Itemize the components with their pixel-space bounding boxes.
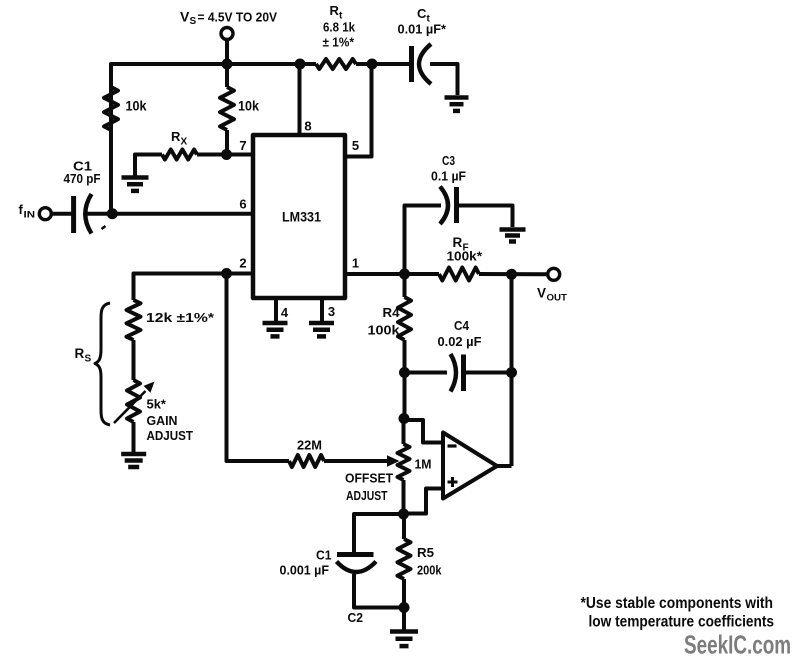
svg-text:R5: R5 [417, 545, 434, 560]
brace Rs [95, 303, 110, 425]
node junction pin2 [221, 268, 232, 279]
terminal VOUT [548, 268, 560, 280]
svg-text:22M: 22M [297, 438, 322, 453]
wire VS stub [225, 39, 229, 64]
resistor 12k body [127, 300, 141, 340]
potentiometer 5k body [127, 380, 140, 422]
svg-text:C4: C4 [454, 318, 470, 333]
potentiometer 1M body [398, 419, 410, 515]
label C4 [438, 318, 482, 349]
wire pot to ground [132, 422, 136, 452]
svg-text:7: 7 [239, 138, 246, 153]
svg-text:C1: C1 [316, 548, 332, 563]
capacitor C4 plate [461, 355, 466, 392]
svg-text:100k*: 100k* [447, 249, 483, 264]
svg-text:R4: R4 [383, 305, 401, 320]
svg-text:0.001 µF: 0.001 µF [280, 563, 330, 578]
wire top supply rail [111, 64, 316, 215]
capacitor C3 plate [454, 187, 459, 223]
svg-text:1: 1 [352, 256, 359, 271]
svg-text:0.02 µF: 0.02 µF [438, 334, 482, 349]
svg-text:1M: 1M [415, 457, 432, 472]
node junction fIN [107, 208, 118, 219]
label R5 [417, 545, 442, 578]
op-amp A1 triangle [443, 433, 497, 499]
capacitor C1 bottom plate [337, 552, 374, 557]
wire pin 1 [345, 272, 439, 276]
svg-text:6.8 1k: 6.8 1k [323, 20, 356, 35]
wire pin7 from RX [197, 153, 253, 157]
svg-text:12k ±1%*: 12k ±1%* [146, 310, 215, 325]
capacitor C1 curved plate [85, 194, 91, 234]
ground C3 [500, 230, 526, 242]
terminal VS [221, 28, 233, 40]
svg-text:ADJUST: ADJUST [346, 488, 388, 503]
svg-text:S: S [85, 354, 92, 365]
node junction C4 right [506, 367, 517, 378]
svg-text:C2: C2 [348, 610, 364, 625]
capacitor Ct curved plate [419, 44, 431, 84]
node junction R4 bottom [399, 367, 410, 378]
wire Rt to Ct [356, 62, 410, 66]
capacitor C1 bottom curved plate [337, 562, 377, 573]
wire R4 node to 1M [403, 373, 407, 420]
wire C1 bottom to node [354, 574, 404, 608]
wire pin 5 [345, 64, 372, 157]
svg-text:3: 3 [328, 304, 335, 319]
svg-text:*Use stable components with: *Use stable components with [581, 595, 774, 612]
svg-text:S: S [190, 16, 197, 27]
note stable components [581, 595, 775, 631]
svg-text:V: V [537, 286, 546, 301]
node junction VOUT [506, 269, 517, 280]
svg-text:C: C [417, 6, 427, 21]
op-amp minus sign [448, 444, 457, 447]
svg-text:C3: C3 [442, 153, 455, 168]
resistor 10k left body [104, 87, 118, 130]
wire to bottom ground [402, 608, 406, 630]
resistor R4 body + leads [398, 274, 411, 373]
svg-text:4: 4 [281, 305, 289, 320]
node junction VS rail [222, 59, 233, 70]
label RS [75, 346, 92, 365]
terminal fIN [39, 208, 51, 220]
label VOUT [537, 286, 567, 304]
svg-text:ADJUST: ADJUST [147, 428, 194, 443]
svg-text:0.01 µF*: 0.01 µF* [398, 22, 447, 37]
resistor 22M body [289, 455, 324, 467]
op-amp plus sign [448, 477, 458, 487]
svg-text:SeekIC.com: SeekIC.com [684, 630, 791, 660]
wire pin 4 + ground [263, 298, 288, 336]
svg-text:8: 8 [304, 119, 311, 134]
svg-text:200k: 200k [417, 563, 442, 578]
node junction pin8 branch [295, 59, 306, 70]
wire op-amp output [496, 464, 512, 468]
label Rt [330, 3, 344, 22]
svg-text:100k: 100k [368, 323, 401, 338]
svg-text:0.1 µF: 0.1 µF [431, 169, 466, 184]
svg-text:OFFSET: OFFSET [345, 471, 393, 486]
wire RX left + ground stub [135, 155, 162, 177]
wire C3 left branch [405, 206, 442, 275]
resistor 10k right body + lead [220, 64, 234, 155]
label Ct [417, 6, 431, 25]
label fIN [19, 202, 36, 221]
svg-text:low temperature coefficients: low temperature coefficients [589, 614, 775, 631]
label offset adjust [345, 471, 393, 504]
wire Ct to ground [430, 64, 458, 95]
svg-text:10k: 10k [126, 99, 147, 114]
wire fIN to C1 [51, 212, 72, 216]
node junction pin5 branch [367, 59, 378, 70]
wire output rail vertical [510, 274, 514, 466]
label C1 input [64, 159, 101, 187]
svg-text:IN: IN [24, 210, 36, 221]
label RF [447, 235, 483, 264]
label 5k gain adjust [147, 397, 194, 444]
capacitor C1 plate [71, 196, 76, 233]
node junction R5 bottom [399, 602, 410, 613]
svg-text:= 4.5V TO 20V: = 4.5V TO 20V [198, 10, 278, 25]
arrow into 1M [387, 455, 400, 466]
label R4 [368, 305, 401, 338]
node junction pin1 [399, 269, 410, 280]
op-amp U1 LM331 box [253, 135, 345, 298]
node junction 1M top [399, 413, 410, 424]
resistor RX body [162, 150, 197, 160]
svg-text:X: X [181, 137, 188, 148]
label C3 [431, 153, 466, 184]
svg-text:OUT: OUT [547, 293, 568, 304]
wire pin 6 [85, 212, 253, 216]
svg-text:± 1%*: ± 1%* [323, 35, 355, 50]
node junction 1M bottom [398, 509, 409, 520]
svg-text:R: R [75, 346, 85, 361]
svg-text:GAIN: GAIN [147, 413, 178, 428]
wire 12k to pot [132, 340, 136, 380]
svg-text:5: 5 [352, 138, 359, 153]
capacitor C4 curved plate [451, 354, 457, 392]
ground RX [122, 178, 149, 191]
svg-text:LM331: LM331 [282, 209, 321, 225]
label VS supply [180, 9, 277, 28]
svg-text:R: R [330, 3, 340, 18]
node junction pin7 [221, 149, 232, 160]
ground Ct [445, 98, 469, 111]
label C1 bottom [280, 548, 332, 578]
ground 5k [121, 454, 146, 467]
ground bottom [390, 632, 418, 647]
svg-text:10k: 10k [238, 99, 259, 114]
stray mark [102, 226, 106, 229]
wire C4 right [465, 371, 512, 375]
label Rt value [323, 20, 356, 50]
svg-text:R: R [171, 129, 181, 144]
label RX [171, 129, 188, 148]
resistor Rt body [316, 59, 356, 69]
capacitor C3 curved plate [440, 187, 448, 225]
capacitor Ct plate [409, 46, 414, 82]
resistor R5 body + leads [398, 514, 411, 608]
wire non-inverting input [404, 489, 443, 514]
svg-text:5k*: 5k* [147, 397, 167, 412]
wire pin2 down to 22M [227, 274, 290, 462]
wire C1 bottom branch left [354, 514, 404, 552]
resistor RF body [439, 268, 479, 281]
wire C3 right to ground [458, 206, 513, 228]
wire RF to VOUT [479, 272, 548, 276]
wire C4 left [405, 371, 448, 375]
svg-text:6: 6 [239, 197, 246, 212]
wire pin 8 [298, 64, 302, 135]
svg-text:2: 2 [239, 256, 246, 271]
wire inverting input [404, 420, 443, 443]
svg-text:470 pF: 470 pF [64, 171, 101, 186]
potentiometer 5k arrow [114, 382, 155, 424]
wire pin 2 [134, 274, 254, 301]
svg-text:V: V [180, 9, 190, 25]
wire 22M to 1M arrow [324, 459, 387, 463]
wire pin 3 + ground [309, 298, 334, 336]
